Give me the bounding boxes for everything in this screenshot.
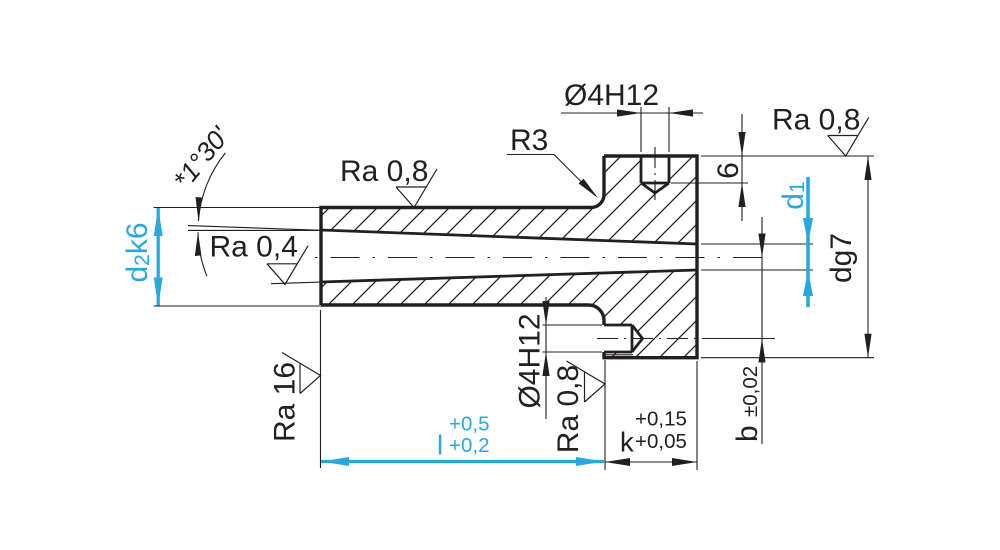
svg-text:l: l bbox=[437, 430, 443, 461]
svg-text:d2k6: d2k6 bbox=[121, 222, 154, 282]
dim b: dimension line bbox=[761, 217, 763, 444]
tapered bore lines bbox=[321, 230, 697, 282]
svg-text:k: k bbox=[620, 427, 634, 458]
svg-text:d1: d1 bbox=[777, 181, 810, 209]
svg-text:+0,15: +0,15 bbox=[635, 408, 687, 431]
dim d2k6: cyan line + arrows bbox=[157, 208, 160, 306]
bottom hole outline bbox=[604, 325, 643, 352]
part outline bbox=[321, 156, 697, 358]
svg-text:Ra 0,8: Ra 0,8 bbox=[340, 155, 428, 188]
svg-text:6: 6 bbox=[712, 162, 745, 179]
svg-text:Ra 0,8: Ra 0,8 bbox=[772, 104, 860, 137]
svg-text:R3: R3 bbox=[510, 124, 548, 157]
dim Ø4H12 bottom: extension lines bbox=[543, 324, 603, 326]
dim k: extension lines bbox=[604, 360, 606, 470]
svg-text:Ra 0,4: Ra 0,4 bbox=[210, 231, 298, 264]
svg-text:dg7: dg7 bbox=[825, 233, 858, 283]
section area upper (hatched) bbox=[321, 156, 697, 244]
dim Ø4H12 top: dimension line bbox=[561, 112, 703, 114]
svg-text:+0,5: +0,5 bbox=[449, 413, 489, 436]
svg-text:Ra 0,8: Ra 0,8 bbox=[552, 365, 585, 453]
svg-text:*1°30': *1°30' bbox=[167, 121, 235, 195]
center line main axis bbox=[315, 257, 762, 259]
angle dim arcs bbox=[198, 153, 225, 221]
svg-text:Ra 16: Ra 16 bbox=[269, 362, 302, 442]
dim 6: dimension line + arrows bbox=[741, 114, 743, 221]
svg-text:b ±0,02: b ±0,02 bbox=[731, 366, 764, 442]
section area lower (hatched) bbox=[321, 270, 697, 358]
thin line below bottom hole bbox=[604, 354, 633, 356]
svg-text:Ø4H12: Ø4H12 bbox=[514, 313, 547, 408]
dim d1: extension lines bbox=[701, 243, 813, 245]
angle dim: taper extension + horizontal reference bbox=[188, 226, 321, 231]
dim dg7: dimension line bbox=[867, 156, 869, 358]
svg-text:Ø4H12: Ø4H12 bbox=[564, 79, 659, 112]
dim 6: extension lines bbox=[701, 155, 874, 157]
center line bottom hole bbox=[597, 338, 702, 340]
center line top hole bbox=[654, 147, 656, 200]
top hole outline bbox=[641, 156, 669, 193]
dim Ø4H12 bottom: dimension line + arrows bbox=[545, 297, 547, 419]
dim d1: cyan line, ticks, arrows bbox=[806, 177, 810, 307]
dim d2k6: extension lines bbox=[154, 207, 322, 209]
dim Ø4H12 top: extension lines bbox=[640, 107, 642, 152]
dim k: dimension line + arrows bbox=[605, 461, 697, 463]
b lower extension line bbox=[702, 338, 775, 340]
svg-text:+0,2: +0,2 bbox=[449, 434, 489, 457]
svg-text:+0,05: +0,05 bbox=[635, 430, 687, 453]
dim l: cyan line + arrows bbox=[321, 460, 604, 463]
dim l: extension line left bbox=[320, 310, 322, 468]
